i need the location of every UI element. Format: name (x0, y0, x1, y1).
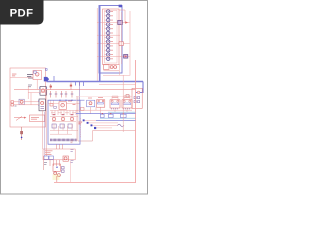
red net under bus (99, 84, 136, 86)
note text marks (31, 117, 39, 120)
sheet corner tick (45, 69, 47, 71)
sub cap X1 (101, 113, 105, 118)
feedback loop wires (112, 96, 130, 100)
wire stub net N4 (97, 55, 130, 57)
connector board outline (103, 9, 120, 65)
highlight (53, 175, 60, 181)
IC row block B2 (97, 100, 105, 107)
page card background (0, 0, 149, 198)
bus stub up (53, 76, 55, 81)
wire to opamp (10, 77, 33, 79)
net band teal A (108, 111, 136, 113)
fuse F1 (19, 99, 24, 104)
blue bus horizontal (47, 81, 144, 83)
pin header P1 band (50, 139, 77, 141)
ground drop wire (56, 176, 58, 182)
relay contact K2 (107, 14, 110, 17)
red riser beside bus (96, 8, 98, 81)
PDF badge (0, 0, 44, 25)
pin label marks B (71, 150, 74, 152)
blue bus vertical (99, 6, 101, 82)
schematic group (10, 5, 143, 183)
snubber network (62, 167, 65, 173)
wire arrow scribble (14, 116, 24, 120)
arrow mark N1 (125, 21, 128, 23)
block port marker (119, 5, 122, 8)
module top junction B (65, 100, 66, 101)
sheet port arrow (44, 77, 49, 82)
wires from module to driver (57, 144, 63, 149)
box top entry wire (93, 131, 136, 141)
inductor L1 on stub (118, 20, 123, 24)
arrow mark N4 (125, 55, 128, 57)
bus stub down B (79, 81, 81, 86)
driver sub block A (44, 156, 48, 159)
right module box (132, 88, 142, 108)
label TR (28, 85, 32, 87)
card border (1, 1, 148, 195)
frame bottom edge (54, 182, 136, 184)
wire stub net N3 (97, 43, 130, 45)
connector board inner frame (105, 11, 118, 64)
opamp module A1 label (27, 75, 33, 78)
opamp A1 pin block (34, 71, 36, 73)
terminal cluster under connector (103, 65, 119, 71)
bus entry wire 1 (84, 119, 96, 121)
relay contact K12 (107, 57, 110, 60)
net band red (76, 109, 132, 111)
left feed wire B (44, 112, 46, 156)
pin number labels right of connector (110, 11, 113, 59)
driver text rows (45, 150, 53, 155)
relay contact K5 (107, 27, 110, 30)
faint bundle wire (76, 96, 78, 141)
opto U4 (60, 124, 64, 128)
wire stub net N1 (97, 22, 130, 24)
net from U2 right (66, 102, 79, 104)
opamp module A1 (33, 71, 42, 80)
relay contact K11 (107, 53, 110, 56)
red column corner (78, 140, 93, 142)
filter cap C3 (60, 91, 63, 98)
left feed wire A (42, 110, 44, 149)
sub cap X2 (109, 113, 114, 118)
bus entry dot 3 (91, 124, 93, 126)
pink riser bottom corner wire (103, 74, 130, 76)
module net B (50, 133, 72, 135)
small choke component (126, 95, 129, 98)
IC row block B4 (122, 100, 132, 110)
pin label marks C (71, 161, 74, 163)
riser in left sheet (27, 86, 29, 99)
relay contact K6 (107, 31, 110, 34)
module detail marks (53, 114, 74, 115)
wire stub net N2 (97, 34, 120, 36)
long net wire AC1 (14, 89, 136, 91)
relay contact K7 (107, 36, 110, 39)
net band teal B (100, 117, 136, 119)
aux label right of U2 (68, 101, 76, 105)
opto U3 (52, 124, 56, 128)
IC row drop wires (91, 107, 128, 114)
bus stub down C (83, 81, 85, 86)
frame right edge (135, 60, 137, 183)
relay contact K4 (107, 23, 110, 26)
transistor Q3 (70, 117, 74, 121)
module top stub (80, 99, 85, 101)
output wires down (50, 160, 60, 166)
bundle tap component (81, 108, 85, 111)
module net A (50, 129, 78, 131)
diode D3 (70, 83, 72, 90)
svg-text:PDF: PDF (10, 7, 34, 19)
left feed wire C (46, 103, 48, 156)
regulator U2 (59, 102, 66, 110)
purple column wire (79, 82, 81, 112)
IC row block B1 (87, 100, 95, 107)
label marks left (44, 163, 47, 165)
opamp drop wire (36, 80, 38, 90)
bus entry dot 2 (87, 122, 89, 124)
IC labels row (88, 97, 130, 99)
riser in left sheet B (30, 93, 32, 105)
bus entry dot 1 (83, 119, 85, 121)
opamp A1 body (35, 73, 39, 77)
relay contact K1 (107, 10, 110, 13)
riser wires right of board (120, 12, 122, 75)
filter cap C2 (55, 91, 58, 98)
hierarchical block U10 outline (99, 6, 122, 74)
input connector J2 (11, 101, 17, 106)
wire J2 to D1 (14, 104, 39, 106)
right drop wire (70, 161, 72, 182)
driver board outline (43, 149, 75, 160)
output transistor Q5 (57, 174, 60, 177)
pin label marks A (71, 141, 74, 143)
bus entry wire 3 (92, 124, 118, 126)
relay contact K10 (107, 49, 110, 52)
driver sub block B (49, 156, 53, 159)
module top junction A (59, 100, 60, 101)
blue bus right corner (136, 82, 143, 93)
filter cap C1 (49, 91, 52, 98)
module top junction C (71, 100, 72, 101)
electrolytic cap C9 (20, 127, 23, 140)
pink dotted wire (80, 118, 82, 138)
left drop wire (43, 156, 45, 170)
pink riser wire (129, 11, 131, 75)
IC row block B3 (110, 100, 120, 110)
sub cap X3 (121, 113, 127, 118)
module detail wires (50, 113, 78, 134)
diode D2 (50, 84, 52, 90)
output stage box (53, 164, 60, 171)
relay contact K3 (107, 18, 110, 21)
arrowhead (24, 117, 26, 119)
inter-sheet wire (46, 90, 48, 104)
bus stub down A (75, 81, 77, 85)
bus entry wire 2 (88, 122, 118, 124)
transistor Q2 (61, 117, 65, 121)
varistor RV1 (118, 124, 124, 127)
red column wire (77, 96, 79, 141)
sub block note (30, 115, 45, 122)
relay contact K9 (107, 44, 110, 47)
relay contact K8 (107, 40, 110, 43)
net label marks (12, 74, 16, 77)
left sheet border (10, 68, 46, 127)
opto U5 (68, 124, 72, 128)
red riser x123 (122, 76, 124, 133)
red riser wire (119, 10, 125, 23)
filter cap C4 (65, 91, 68, 98)
faint aux net (76, 96, 132, 98)
net band blue low (96, 120, 136, 122)
net band blue (76, 113, 136, 115)
net wire AC2 (28, 92, 46, 94)
pin ticks left of connector (105, 12, 107, 59)
wire J2 to F1 (14, 101, 19, 103)
diode D5 on stub (119, 42, 124, 46)
output transistor Q4 (54, 172, 57, 175)
bridge rectifier D1 (38, 99, 45, 111)
aux parts left of U2 (50, 100, 56, 108)
filter cap C5 (71, 91, 74, 98)
junction dot (56, 167, 57, 168)
processor module outline (48, 100, 80, 144)
resistor ladder row (50, 110, 78, 115)
transistor Q1 (52, 117, 56, 121)
transformer T1 (39, 87, 47, 96)
net to U2 left (48, 102, 59, 104)
bus entry wire 4 (96, 127, 113, 129)
wire F1 to D1 (24, 101, 39, 103)
label cp (79, 122, 83, 125)
driver relay K14 (63, 156, 68, 161)
pin header P1 (51, 139, 77, 142)
bus entry dot 4 (94, 127, 96, 129)
inductor L2 on stub (124, 55, 128, 59)
